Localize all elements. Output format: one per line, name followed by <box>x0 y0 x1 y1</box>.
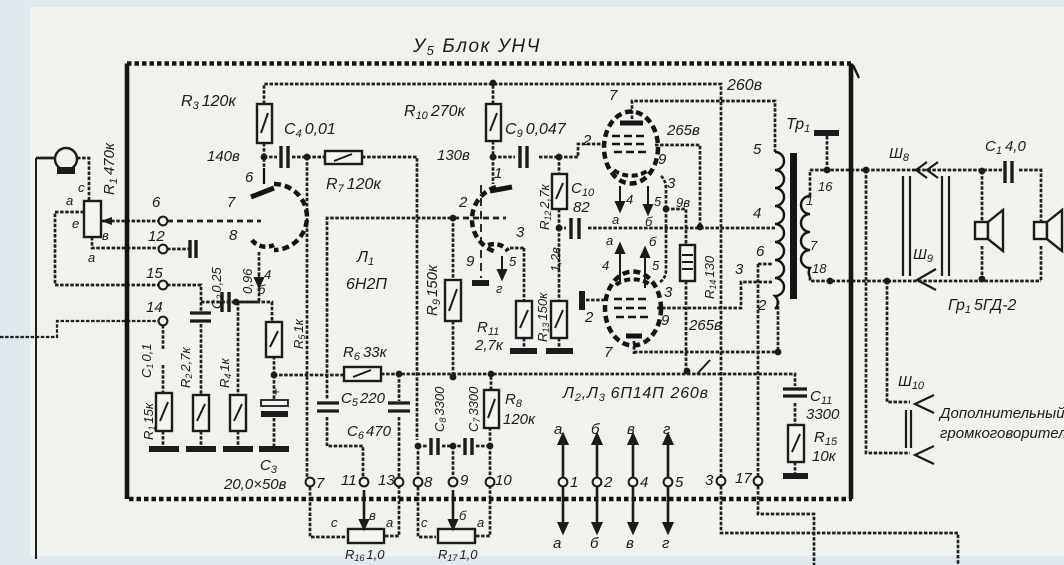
svg-text:3: 3 <box>705 472 714 489</box>
svg-text:С40,01: С40,01 <box>284 121 336 140</box>
svg-text:3: 3 <box>667 175 676 192</box>
svg-text:265в: 265в <box>688 317 722 334</box>
svg-text:4: 4 <box>753 205 761 222</box>
svg-text:R115к: R115к <box>141 402 157 440</box>
svg-text:С73300: С73300 <box>466 386 482 432</box>
svg-text:в: в <box>627 421 635 438</box>
svg-text:Ш9: Ш9 <box>913 246 933 265</box>
svg-text:9: 9 <box>658 151 667 168</box>
svg-text:R13150к: R13150к <box>535 292 551 342</box>
svg-text:9: 9 <box>466 253 475 270</box>
svg-text:б: б <box>649 234 657 249</box>
svg-text:4: 4 <box>626 192 633 207</box>
svg-text:б: б <box>591 421 600 438</box>
svg-text:У5Блок УНЧ: У5Блок УНЧ <box>412 36 541 58</box>
svg-text:в: в <box>369 508 376 523</box>
svg-text:а: а <box>554 421 562 438</box>
svg-text:265в: 265в <box>666 122 700 139</box>
svg-text:б: б <box>590 535 599 552</box>
svg-text:3300: 3300 <box>806 406 840 423</box>
svg-text:R9150к: R9150к <box>424 264 443 316</box>
svg-text:R10270к: R10270к <box>404 103 467 122</box>
svg-text:5: 5 <box>509 254 517 269</box>
svg-text:6: 6 <box>245 169 254 186</box>
svg-text:4: 4 <box>640 474 648 491</box>
svg-text:2: 2 <box>584 309 594 326</box>
svg-text:14: 14 <box>146 299 163 316</box>
svg-text:б: б <box>459 508 467 523</box>
svg-text:17: 17 <box>735 470 752 487</box>
svg-text:5: 5 <box>753 141 762 158</box>
svg-text:16: 16 <box>818 179 833 194</box>
svg-text:1,2в: 1,2в <box>548 247 563 272</box>
svg-text:а: а <box>612 212 619 227</box>
svg-text:С10: С10 <box>571 180 595 199</box>
svg-text:С10,1: С10,1 <box>139 344 155 378</box>
svg-text:с: с <box>78 180 85 195</box>
svg-text:3: 3 <box>664 284 673 301</box>
svg-text:9в: 9в <box>676 195 690 210</box>
svg-text:С6470: С6470 <box>347 423 392 442</box>
svg-text:С90,047: С90,047 <box>505 121 567 140</box>
svg-text:а: а <box>477 515 484 530</box>
svg-text:0,96: 0,96 <box>240 268 255 294</box>
svg-text:с: с <box>421 515 428 530</box>
svg-text:120к: 120к <box>503 411 536 428</box>
svg-text:3: 3 <box>516 224 525 241</box>
svg-text:Л2,Л36П14П260в: Л2,Л36П14П260в <box>562 385 709 404</box>
svg-text:С20,25: С20,25 <box>209 267 225 309</box>
svg-text:R122,7к: R122,7к <box>537 184 553 230</box>
svg-text:13: 13 <box>378 472 395 489</box>
svg-text:R161,0: R161,0 <box>345 547 385 563</box>
svg-text:Л1: Л1 <box>356 249 374 268</box>
svg-text:Тр1: Тр1 <box>786 116 810 135</box>
svg-text:3: 3 <box>735 261 744 278</box>
svg-text:2: 2 <box>757 297 767 314</box>
svg-text:82: 82 <box>573 199 590 216</box>
svg-text:7: 7 <box>316 475 325 492</box>
svg-text:130в: 130в <box>437 147 470 164</box>
svg-text:7: 7 <box>810 238 818 253</box>
svg-text:С3: С3 <box>260 457 278 476</box>
svg-text:С14,0: С14,0 <box>985 138 1026 157</box>
svg-text:1: 1 <box>806 193 813 208</box>
svg-text:9: 9 <box>460 472 469 489</box>
svg-text:г: г <box>496 281 503 296</box>
svg-text:6: 6 <box>152 194 161 211</box>
svg-text:1: 1 <box>494 165 502 182</box>
svg-text:громкоговоритель: громкоговоритель <box>940 425 1064 442</box>
svg-text:а: а <box>66 193 73 208</box>
svg-text:6Н2П: 6Н2П <box>346 276 387 293</box>
svg-text:Дополнительный: Дополнительный <box>938 405 1064 422</box>
svg-text:R51к: R51к <box>291 318 307 349</box>
svg-text:С5220: С5220 <box>341 390 386 409</box>
svg-text:б: б <box>258 282 266 297</box>
svg-text:е: е <box>72 216 79 231</box>
svg-text:R15: R15 <box>814 429 838 448</box>
svg-text:5: 5 <box>654 194 662 209</box>
svg-text:4: 4 <box>264 267 271 282</box>
svg-text:10к: 10к <box>812 448 837 465</box>
svg-text:в: в <box>626 535 634 552</box>
svg-text:9: 9 <box>661 312 670 329</box>
svg-text:Ш8: Ш8 <box>889 145 910 164</box>
svg-text:11: 11 <box>341 472 357 489</box>
svg-text:С83300: С83300 <box>432 386 448 432</box>
svg-text:R171,0: R171,0 <box>438 547 478 563</box>
svg-text:а: а <box>386 515 393 530</box>
svg-text:R41к: R41к <box>217 357 233 388</box>
svg-text:г: г <box>663 421 671 438</box>
svg-text:а: а <box>88 250 95 265</box>
svg-text:R3120к: R3120к <box>181 93 237 112</box>
svg-text:R14130: R14130 <box>702 255 718 299</box>
svg-text:г: г <box>662 535 670 552</box>
svg-text:в: в <box>102 228 109 243</box>
svg-text:б: б <box>645 214 653 229</box>
svg-text:R8: R8 <box>505 391 523 410</box>
svg-text:140в: 140в <box>207 148 240 165</box>
svg-text:Ш10: Ш10 <box>898 373 925 392</box>
svg-text:С11: С11 <box>810 388 832 407</box>
svg-text:12: 12 <box>148 228 165 245</box>
svg-text:2: 2 <box>603 474 613 491</box>
svg-text:4: 4 <box>602 258 609 273</box>
svg-text:а: а <box>606 233 613 248</box>
svg-text:+: + <box>272 384 280 399</box>
svg-text:R633к: R633к <box>343 344 388 363</box>
svg-text:R7120к: R7120к <box>326 176 382 195</box>
svg-text:20,0×50в: 20,0×50в <box>223 476 287 493</box>
svg-text:2: 2 <box>458 194 468 211</box>
svg-text:R22,7к: R22,7к <box>178 347 194 388</box>
svg-text:2: 2 <box>582 132 592 149</box>
svg-text:а: а <box>553 535 561 552</box>
svg-text:18: 18 <box>812 261 827 276</box>
svg-text:R1470к: R1470к <box>101 142 120 195</box>
svg-text:10: 10 <box>495 472 512 489</box>
svg-text:5: 5 <box>652 258 660 273</box>
svg-text:5: 5 <box>675 474 684 491</box>
svg-text:с: с <box>331 515 338 530</box>
svg-text:6: 6 <box>756 243 765 260</box>
svg-text:2,7к: 2,7к <box>474 337 504 354</box>
svg-text:7: 7 <box>227 194 236 211</box>
svg-text:8: 8 <box>229 227 238 244</box>
svg-text:7: 7 <box>609 87 618 104</box>
svg-text:260в: 260в <box>726 77 762 94</box>
svg-text:8: 8 <box>424 474 433 491</box>
svg-text:Гр15ГД-2: Гр15ГД-2 <box>948 297 1017 316</box>
svg-text:7: 7 <box>604 344 613 361</box>
svg-text:R11: R11 <box>477 319 499 338</box>
svg-text:1: 1 <box>570 474 578 491</box>
svg-text:15: 15 <box>146 265 163 282</box>
